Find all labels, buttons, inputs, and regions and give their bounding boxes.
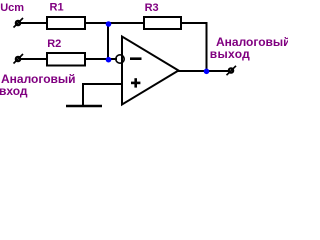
svg-text:вход: вход: [0, 84, 28, 98]
svg-text:выход: выход: [210, 47, 250, 61]
svg-text:Ucm: Ucm: [0, 2, 24, 14]
svg-text:R3: R3: [145, 2, 159, 14]
svg-text:R2: R2: [47, 38, 61, 50]
svg-text:R1: R1: [50, 2, 64, 14]
